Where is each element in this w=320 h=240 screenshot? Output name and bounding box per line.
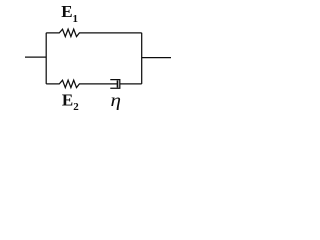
svg-text:E: E — [62, 90, 73, 109]
svg-text:E: E — [61, 2, 72, 21]
svg-text:1: 1 — [73, 13, 79, 25]
svg-text:2: 2 — [73, 101, 79, 113]
svg-text:η: η — [111, 90, 122, 110]
